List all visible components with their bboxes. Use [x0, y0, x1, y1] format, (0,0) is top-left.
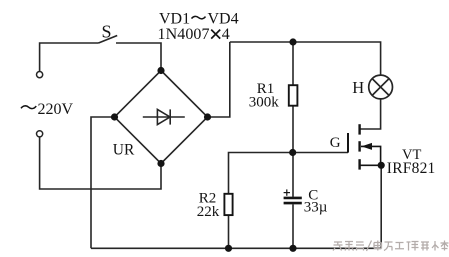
terminal: AC upper	[37, 72, 43, 78]
channel dash drain	[358, 124, 360, 134]
gate bar	[347, 133, 349, 153]
svg-text:33µ: 33µ	[304, 199, 328, 215]
junction: bridge right vertex	[204, 113, 211, 120]
bridge diode symbol	[143, 109, 185, 124]
watermark	[333, 241, 449, 252]
wire: top DC+ rail to lamp	[230, 42, 381, 75]
junction: bridge bottom vertex	[157, 160, 164, 167]
svg-text:1N4007: 1N4007	[158, 26, 210, 43]
wire: capacitor C bottom plate to bottom rail	[292, 204, 294, 248]
svg-text:UR: UR	[113, 142, 135, 159]
junction: bottom rail at R2	[225, 245, 232, 252]
resistor R2 body	[224, 194, 232, 215]
svg-text:H: H	[352, 78, 364, 97]
junction: bottom rail at C	[289, 245, 296, 252]
capacitor + polarity mark	[284, 189, 290, 195]
wire: switch right contact to bridge top vertex	[116, 43, 161, 71]
lamp H circle with cross	[369, 75, 393, 99]
wire: lamp bottom to MOSFET drain	[360, 99, 380, 129]
wire: gate node right to MOSFET gate	[293, 152, 348, 154]
junction: MOSFET source node	[378, 162, 385, 169]
MOSFET body arrowhead	[361, 143, 372, 150]
wire: R2 bottom to bottom rail	[228, 215, 230, 248]
wire: gate node left and down to R2 top	[229, 153, 293, 194]
wire: upper AC terminal up to switch	[40, 43, 99, 71]
junction: top rail at R1	[289, 38, 296, 45]
wire: bridge right vertex up to top DC+ rail	[208, 42, 230, 117]
channel dash body	[358, 141, 360, 151]
switch S blade	[99, 36, 118, 44]
svg-text:S: S	[102, 22, 112, 42]
wire: bottom rail	[91, 247, 381, 249]
wire: MOSFET source down to bottom rail	[380, 165, 382, 248]
source connection	[360, 164, 382, 166]
wire: lower AC terminal down and right to bridge bottom	[40, 137, 161, 189]
junction: gate node	[289, 149, 296, 156]
channel dash source	[358, 159, 360, 169]
junction: bridge left vertex	[111, 113, 118, 120]
bridge rectifier UR diamond	[115, 71, 208, 164]
wire: bridge left vertex to bottom rail	[91, 117, 115, 248]
svg-text:220V: 220V	[38, 101, 74, 118]
svg-text:G: G	[330, 135, 341, 151]
wire: R1 bottom to gate node	[292, 106, 294, 153]
wire: R1 top from rail junction	[292, 42, 294, 85]
label ~220V	[21, 106, 36, 109]
transistor VT MOSFET symbol	[348, 124, 381, 169]
body connection with arrow	[361, 146, 381, 165]
terminal: AC lower	[37, 131, 43, 137]
svg-text:IRF821: IRF821	[387, 160, 436, 177]
capacitor C plates	[284, 198, 302, 203]
junction: bridge top vertex	[157, 67, 164, 74]
svg-text:300k: 300k	[249, 95, 279, 111]
resistor R1 body	[289, 85, 298, 106]
svg-text:22k: 22k	[197, 204, 220, 220]
wire: gate node down to capacitor C top plate	[292, 153, 294, 197]
svg-text:4: 4	[222, 26, 230, 43]
